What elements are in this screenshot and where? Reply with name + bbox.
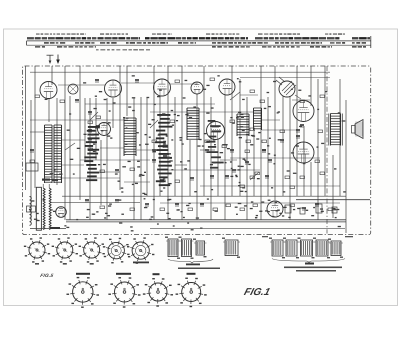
svg-text:FIG.1: FIG.1 <box>243 287 272 298</box>
svg-text:FIG.5: FIG.5 <box>40 273 54 279</box>
